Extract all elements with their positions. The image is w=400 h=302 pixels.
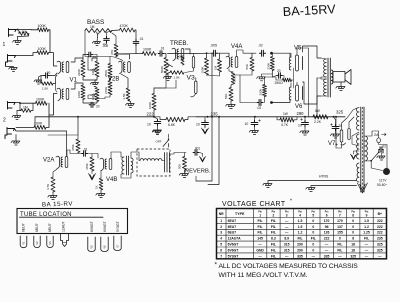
label 100K r1 bbox=[38, 24, 47, 28]
ground cap222b bbox=[202, 126, 209, 134]
wire V4A plate out bbox=[237, 50, 257, 57]
label input 1 bbox=[3, 42, 6, 48]
resistor 270K mix2 bbox=[104, 81, 112, 96]
svg-text:0: 0 bbox=[312, 225, 314, 229]
svg-text:2: 2 bbox=[220, 225, 222, 229]
svg-text:WITH 11 MEG./VOLT V.T.V.M.: WITH 11 MEG./VOLT V.T.V.M. bbox=[219, 272, 308, 279]
resistor 6.8K bbox=[166, 117, 185, 127]
wire V4A cathode bbox=[229, 69, 233, 72]
svg-text:10: 10 bbox=[245, 122, 249, 126]
svg-text:.02: .02 bbox=[258, 44, 263, 48]
wire mix out bbox=[109, 57, 123, 81]
svg-text:V2B: V2B bbox=[108, 77, 119, 83]
capacitor 20 bypass bbox=[89, 102, 100, 108]
tube V3B pill bbox=[191, 78, 197, 97]
ground ch1 1M bbox=[13, 36, 29, 45]
resistor 470K rvb2 bbox=[85, 157, 94, 171]
wire pots top bbox=[83, 58, 97, 80]
svg-text:5Y3GT: 5Y3GT bbox=[116, 221, 120, 232]
resistor 2.2K 5W bbox=[313, 115, 328, 124]
resistor 56K PI tail bbox=[224, 88, 233, 102]
wire PI tail bbox=[231, 84, 233, 88]
wire jack1 to grid bus bbox=[16, 29, 31, 31]
svg-text:.01: .01 bbox=[160, 46, 165, 50]
svg-text:1.5K: 1.5K bbox=[122, 93, 126, 99]
wire V7 out bbox=[335, 116, 342, 148]
svg-text:FIL: FIL bbox=[271, 248, 276, 252]
ground PI tail bbox=[226, 101, 236, 109]
wire ch2 to V2A bbox=[66, 131, 68, 156]
svg-text:FIL: FIL bbox=[258, 231, 263, 235]
ground heater2 bbox=[263, 181, 357, 188]
svg-text:1: 1 bbox=[3, 42, 6, 48]
label 1W bbox=[283, 112, 288, 116]
svg-text:1: 1 bbox=[259, 213, 261, 217]
tube V1 upper half bbox=[57, 61, 69, 73]
svg-text:V2A: V2A bbox=[43, 158, 54, 164]
svg-text:155: 155 bbox=[337, 231, 343, 235]
svg-text:V4A: V4A bbox=[231, 44, 242, 50]
ground V3 cathode bbox=[163, 73, 171, 81]
svg-text:10: 10 bbox=[298, 124, 302, 128]
resistor 1M PI bbox=[214, 59, 222, 72]
resistor 100K screen bbox=[148, 94, 156, 111]
resistor 100K r2 bbox=[37, 51, 49, 55]
svg-text:500K: 500K bbox=[160, 66, 164, 73]
jack J1 ring bbox=[6, 55, 16, 66]
label 100K r3 bbox=[36, 97, 45, 101]
svg-text:FIL: FIL bbox=[271, 243, 276, 247]
wire V3 to bus bbox=[154, 75, 176, 89]
svg-text:V5: V5 bbox=[90, 245, 94, 249]
capacitor .001 bbox=[193, 147, 200, 156]
svg-text:170: 170 bbox=[337, 219, 343, 223]
resistor 470K rvb1 bbox=[71, 139, 80, 153]
label 222 bbox=[147, 111, 155, 116]
resistor 250K mix1 bbox=[104, 64, 112, 79]
svg-text:100K: 100K bbox=[38, 24, 47, 28]
svg-text:170: 170 bbox=[324, 219, 330, 223]
svg-text:0: 0 bbox=[312, 248, 314, 252]
wire bus left end bbox=[35, 117, 154, 127]
wire T1 B+ bbox=[316, 78, 318, 118]
wire V2A cathode bbox=[53, 169, 57, 177]
label HTRS bbox=[319, 175, 329, 179]
svg-text:18: 18 bbox=[351, 248, 355, 252]
label VOLTAGE CHART bbox=[222, 199, 292, 208]
ground cap235 bbox=[249, 126, 258, 135]
wire 220K join bbox=[265, 71, 273, 85]
transformer T2 primary bbox=[122, 156, 129, 175]
capacitor .005 bbox=[210, 43, 218, 56]
potentiometer 1MA vol1 bbox=[91, 61, 100, 77]
wire pots bottom bbox=[83, 100, 97, 104]
ground V1 cathode bbox=[34, 76, 42, 85]
svg-text:2: 2 bbox=[3, 118, 6, 124]
tube V4A bbox=[226, 56, 238, 68]
resistor 1.5K PI bbox=[231, 72, 236, 84]
svg-text:220K: 220K bbox=[259, 89, 263, 96]
resistor 4.7K V2A cathode bbox=[46, 177, 55, 192]
wire 1M down bbox=[18, 30, 29, 37]
resistor 1M ch2 bbox=[21, 109, 31, 113]
label TREB bbox=[170, 40, 189, 47]
svg-text:325: 325 bbox=[350, 254, 356, 258]
transformer T3 HV winding upper bbox=[357, 108, 359, 131]
tube socket 4 bbox=[61, 234, 69, 247]
resistor 100K r4 bbox=[34, 125, 46, 129]
voltage chart grid bbox=[217, 209, 387, 259]
node lower drive bbox=[270, 101, 273, 104]
label 470K bass bbox=[120, 24, 129, 28]
svg-text:1: 1 bbox=[220, 219, 222, 223]
resistor 50K rvb bbox=[178, 157, 187, 171]
svg-text:1.25: 1.25 bbox=[363, 231, 370, 235]
tube location box bbox=[17, 209, 128, 234]
tube socket 6 bbox=[101, 237, 108, 252]
svg-text:222: 222 bbox=[377, 225, 383, 229]
wire 470K down bbox=[135, 30, 136, 54]
svg-text:100K: 100K bbox=[143, 48, 152, 52]
svg-text:FIL: FIL bbox=[311, 237, 316, 241]
wire 20 extra bbox=[92, 55, 97, 59]
reverb spring coil bbox=[136, 152, 162, 161]
svg-text:0: 0 bbox=[352, 225, 354, 229]
ground jack1b bbox=[6, 66, 18, 72]
svg-text:10: 10 bbox=[147, 123, 151, 127]
svg-text:50K: 50K bbox=[178, 164, 182, 169]
svg-text:ALL DC VOLTAGES MEASURED TO CH: ALL DC VOLTAGES MEASURED TO CHASSIS bbox=[219, 263, 359, 270]
ground line cap bbox=[377, 150, 385, 161]
svg-text:126: 126 bbox=[324, 231, 330, 235]
wire bias net bbox=[272, 68, 293, 88]
svg-text:V7: V7 bbox=[116, 244, 120, 248]
wire V5 plate bbox=[303, 46, 322, 58]
svg-text:6EU7: 6EU7 bbox=[48, 223, 52, 232]
ground jack2b bbox=[11, 135, 20, 146]
wire T1 tap bbox=[317, 77, 326, 79]
svg-text:6: 6 bbox=[220, 248, 222, 252]
wire 50K bbox=[184, 153, 186, 157]
svg-text:V1: V1 bbox=[70, 78, 78, 84]
fuse F1 bbox=[377, 138, 381, 143]
svg-text:FIL: FIL bbox=[337, 243, 342, 247]
wire V4B cathode bbox=[100, 171, 102, 179]
wire jack2 to r3 bbox=[15, 102, 36, 105]
wire mix wipers bbox=[88, 57, 110, 99]
wire heaters bbox=[311, 185, 357, 187]
svg-text:—: — bbox=[338, 254, 342, 258]
label V5 bbox=[294, 46, 302, 52]
wire screens bbox=[297, 48, 309, 117]
svg-text:.005: .005 bbox=[210, 43, 217, 47]
svg-text:100K: 100K bbox=[148, 102, 152, 109]
label 2A fuse bbox=[374, 133, 386, 137]
svg-text:—: — bbox=[285, 225, 289, 229]
resistor 56K out bbox=[245, 58, 254, 72]
wire r1 r2 join bbox=[49, 30, 51, 53]
wire 100K PI bbox=[206, 52, 208, 58]
svg-text:8: 8 bbox=[352, 213, 354, 217]
svg-text:1M A: 1M A bbox=[91, 93, 95, 100]
capacitor .01 treble bbox=[158, 46, 165, 56]
capacitor 20 V1 cathode bbox=[44, 71, 51, 78]
capacitor .02 line bbox=[379, 145, 387, 153]
label V2A bbox=[43, 158, 54, 164]
footnote line2 bbox=[219, 272, 308, 279]
svg-text:220K: 220K bbox=[267, 63, 271, 70]
svg-text:1.5: 1.5 bbox=[364, 219, 369, 223]
ground T3 frame arrow bbox=[357, 177, 367, 193]
capacitor 10 node290 bbox=[298, 119, 308, 128]
svg-text:V6: V6 bbox=[295, 104, 303, 110]
label REVERB bbox=[185, 169, 211, 175]
voltage chart header bbox=[219, 212, 382, 218]
svg-text:3: 3 bbox=[286, 213, 288, 217]
svg-text:6V6GT: 6V6GT bbox=[228, 243, 240, 247]
svg-text:8.3: 8.3 bbox=[271, 237, 276, 241]
wire ch2 join bbox=[49, 94, 57, 128]
svg-text:10: 10 bbox=[196, 123, 200, 127]
svg-text:1.2: 1.2 bbox=[298, 231, 303, 235]
resistor 250 bias bbox=[283, 78, 292, 82]
svg-text:145: 145 bbox=[257, 237, 263, 241]
svg-text:V3: V3 bbox=[187, 75, 196, 82]
label 325 bbox=[336, 110, 344, 115]
ground 470K rvb2 arrow bbox=[89, 171, 96, 180]
wire ch1 to V1 grid bbox=[50, 53, 57, 66]
ground heaters bbox=[306, 186, 315, 192]
label V6 bbox=[295, 104, 303, 110]
svg-text:1.2: 1.2 bbox=[364, 225, 369, 229]
title BA-15RV bbox=[282, 2, 336, 19]
svg-text:56K: 56K bbox=[245, 64, 249, 69]
svg-text:TYPE: TYPE bbox=[235, 212, 245, 216]
label V4B bbox=[106, 177, 117, 183]
resistor 220K upper bbox=[267, 57, 275, 71]
tube V6 bbox=[289, 82, 302, 101]
svg-text:222: 222 bbox=[147, 111, 155, 116]
wire V2B plate up bbox=[117, 54, 130, 59]
svg-text:1M: 1M bbox=[214, 65, 218, 70]
svg-text:8: 8 bbox=[352, 237, 354, 241]
wire V4A cathode out bbox=[233, 75, 256, 103]
potentiometer 500K treble bbox=[160, 58, 172, 75]
svg-text:325: 325 bbox=[336, 110, 344, 115]
wire fuse top bbox=[367, 131, 379, 138]
wire pot to 470K bbox=[112, 29, 120, 32]
svg-text:6EU7: 6EU7 bbox=[228, 231, 237, 235]
svg-text:100K: 100K bbox=[38, 47, 47, 51]
wire V1 plates bbox=[71, 58, 83, 89]
svg-text:FIL: FIL bbox=[364, 237, 369, 241]
svg-text:290: 290 bbox=[297, 243, 303, 247]
tube V2B bbox=[119, 61, 131, 73]
svg-text:335: 335 bbox=[297, 254, 303, 258]
ground node222 bbox=[152, 117, 161, 134]
resistor 100K PI grid bbox=[201, 58, 209, 75]
transformer T1 secondary bbox=[331, 70, 333, 84]
svg-text:FIL: FIL bbox=[271, 225, 276, 229]
transformer T1 core bbox=[328, 58, 330, 97]
label 100K tone bbox=[143, 48, 152, 52]
label 1M bass bbox=[90, 25, 95, 29]
svg-text:9: 9 bbox=[366, 213, 368, 217]
resistor 100K tone bbox=[143, 52, 157, 56]
wire 220K upper bbox=[271, 53, 274, 56]
svg-text:.01: .01 bbox=[139, 37, 144, 41]
svg-text:1K: 1K bbox=[95, 185, 99, 189]
capacitor 20 extra bbox=[87, 52, 96, 59]
wire reverb verticals bbox=[196, 116, 220, 185]
svg-text:6V6GT: 6V6GT bbox=[228, 248, 240, 252]
resistor 100K V1b plate bbox=[77, 85, 85, 100]
svg-text:222: 222 bbox=[377, 231, 383, 235]
svg-text:NR: NR bbox=[219, 212, 224, 216]
label input 2 bbox=[3, 118, 6, 124]
svg-text:100K: 100K bbox=[36, 97, 45, 101]
svg-text:0: 0 bbox=[312, 219, 314, 223]
svg-text:20: 20 bbox=[47, 71, 51, 75]
wire to V5 grid bbox=[272, 53, 291, 57]
svg-text:2: 2 bbox=[273, 213, 275, 217]
svg-text:0: 0 bbox=[352, 231, 354, 235]
svg-text:12AU7: 12AU7 bbox=[62, 222, 66, 232]
wire .005 to V4A bbox=[218, 53, 229, 56]
label 250ohm bbox=[275, 81, 284, 85]
svg-text:—: — bbox=[285, 254, 289, 258]
svg-text:5W: 5W bbox=[315, 109, 320, 113]
svg-text:325: 325 bbox=[377, 243, 383, 247]
svg-text:222: 222 bbox=[324, 237, 330, 241]
ground V2A cathode bbox=[48, 192, 57, 200]
wire .008 bbox=[103, 31, 112, 45]
switch OFF bbox=[156, 139, 170, 147]
wire tone bus bbox=[116, 54, 143, 57]
svg-text:0: 0 bbox=[339, 237, 341, 241]
handwriting BA 15-RV bbox=[42, 200, 74, 208]
wire T2 bbox=[121, 152, 136, 178]
svg-text:.02: .02 bbox=[382, 145, 387, 149]
resistor 47K bbox=[110, 44, 118, 57]
svg-text:0: 0 bbox=[312, 231, 314, 235]
svg-text:470K: 470K bbox=[85, 163, 89, 170]
label 100K r4 bbox=[34, 121, 43, 125]
svg-text:100Ω: 100Ω bbox=[177, 55, 185, 59]
switch SW1 bbox=[370, 150, 379, 162]
resistor 1K V4B cathode bbox=[95, 178, 103, 190]
svg-text:235: 235 bbox=[377, 237, 383, 241]
tube V3 bbox=[172, 48, 184, 60]
svg-text:270K: 270K bbox=[104, 87, 108, 94]
transformer T2 secondary bbox=[131, 158, 133, 173]
wire 470K rvb2 bbox=[91, 154, 93, 158]
svg-text:137: 137 bbox=[337, 225, 343, 229]
wire r4 leads bbox=[16, 126, 49, 128]
capacitor 10 node222b bbox=[196, 120, 208, 126]
ground 50K bbox=[179, 170, 188, 178]
svg-text:*: * bbox=[290, 199, 292, 205]
svg-text:315: 315 bbox=[284, 243, 290, 247]
svg-text:6.8K: 6.8K bbox=[168, 123, 176, 127]
svg-text:8.9: 8.9 bbox=[284, 237, 289, 241]
potentiometer 1MA vol2 bbox=[91, 88, 100, 102]
svg-text:V1: V1 bbox=[22, 241, 26, 245]
wire HV bottom bbox=[352, 132, 359, 146]
wire tank out bbox=[170, 153, 187, 155]
resistor 1M ch1 bbox=[19, 32, 29, 36]
svg-text:56K: 56K bbox=[224, 94, 228, 99]
wire cap235 bbox=[254, 117, 256, 121]
wire 1M ch2 leads bbox=[20, 103, 33, 110]
svg-text:7: 7 bbox=[339, 213, 341, 217]
wire cap222b bbox=[204, 117, 206, 121]
voltage chart rows bbox=[220, 219, 382, 258]
svg-text:.008: .008 bbox=[102, 44, 108, 48]
svg-text:V5: V5 bbox=[294, 46, 302, 52]
svg-text:FIL: FIL bbox=[271, 219, 276, 223]
label 5W bbox=[315, 109, 320, 113]
ground cap325 bbox=[330, 130, 339, 138]
speaker SPK bbox=[333, 70, 351, 85]
wire V7 plate2 bbox=[349, 117, 354, 128]
wire treble bbox=[165, 54, 167, 58]
ground pots bbox=[90, 80, 98, 87]
svg-text:1.5K: 1.5K bbox=[233, 76, 237, 82]
wire r1 in bbox=[31, 29, 38, 31]
svg-text:290: 290 bbox=[297, 248, 303, 252]
wire V1 cathode bbox=[41, 73, 57, 92]
ground V4B bbox=[96, 190, 105, 198]
svg-text:1M: 1M bbox=[23, 105, 28, 109]
resistor 1.5K V2B cathode bbox=[122, 88, 130, 101]
svg-text:V3: V3 bbox=[48, 241, 52, 245]
transformer T3 primary bbox=[365, 136, 368, 161]
svg-text:B+: B+ bbox=[378, 212, 382, 216]
svg-text:FIL: FIL bbox=[258, 225, 263, 229]
jack J2 tip bbox=[8, 102, 16, 110]
label 235 bbox=[211, 112, 219, 117]
ground bias bbox=[257, 74, 273, 81]
svg-text:1M: 1M bbox=[90, 25, 95, 29]
svg-text:6V6GT: 6V6GT bbox=[90, 221, 94, 232]
ground .001 arrow bbox=[199, 153, 205, 163]
svg-text:18: 18 bbox=[351, 243, 355, 247]
wire speaker bbox=[332, 70, 333, 84]
resistor 100K r1 bbox=[38, 28, 49, 32]
wire switch to plug bbox=[371, 161, 382, 171]
svg-text:315: 315 bbox=[284, 248, 290, 252]
svg-text:FIL: FIL bbox=[297, 237, 302, 241]
resistor 220K V1 plate bbox=[77, 60, 85, 77]
tube socket 5 bbox=[88, 237, 95, 252]
tube V4B bbox=[100, 158, 112, 170]
svg-text:V2: V2 bbox=[35, 241, 39, 245]
label V7 bbox=[328, 141, 338, 147]
svg-text:0: 0 bbox=[352, 219, 354, 223]
svg-text:HTRS: HTRS bbox=[319, 175, 329, 179]
wire 220K lower bbox=[264, 97, 266, 103]
svg-text:4.7K: 4.7K bbox=[46, 184, 50, 190]
svg-text:1.5K: 1.5K bbox=[42, 87, 48, 91]
svg-text:REVERB.: REVERB. bbox=[185, 169, 211, 175]
svg-text:50-60~: 50-60~ bbox=[377, 183, 387, 187]
label 1M ch1 bbox=[22, 30, 27, 34]
resistor 220K lower bbox=[259, 85, 267, 97]
tube socket 2 bbox=[34, 236, 40, 248]
capacitor 20 node325 bbox=[331, 124, 343, 131]
label V4A bbox=[231, 44, 242, 50]
